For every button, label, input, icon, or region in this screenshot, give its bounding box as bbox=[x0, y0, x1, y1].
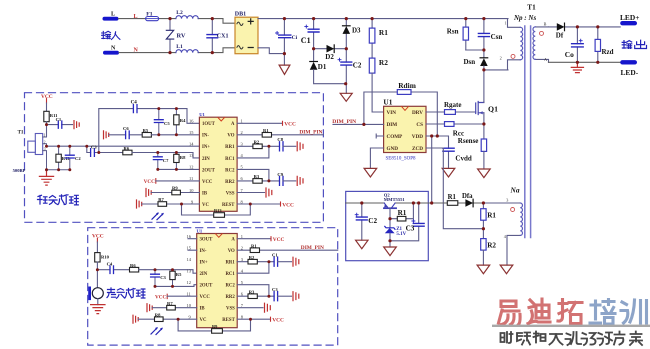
svg-text:RC1: RC1 bbox=[225, 157, 235, 162]
svg-text:VDD: VDD bbox=[412, 134, 423, 140]
resistor R1 (VO) / net DIM_PIN bbox=[237, 128, 323, 137]
wire aux rail bbox=[346, 202, 484, 204]
pin A wire to VCC (sound) bbox=[237, 237, 284, 243]
winding Na bbox=[483, 185, 522, 265]
svg-text:COMP: COMP bbox=[387, 134, 404, 140]
svg-text:Na: Na bbox=[510, 185, 520, 194]
svg-text:GND: GND bbox=[387, 146, 399, 152]
svg-text:Df: Df bbox=[556, 31, 564, 39]
svg-text:SE8510_SOP8: SE8510_SOP8 bbox=[386, 156, 417, 161]
svg-text:2: 2 bbox=[500, 56, 502, 61]
junction dots snubber bbox=[464, 17, 485, 72]
capacitor C1 (IR) bbox=[47, 117, 73, 128]
svg-text:5.1V: 5.1V bbox=[396, 232, 406, 237]
svg-text:RC2: RC2 bbox=[225, 284, 235, 289]
pin RC1 wire (sound) bbox=[237, 262, 269, 274]
wire LED- rail bbox=[549, 61, 621, 63]
ground (Na) bbox=[500, 265, 513, 274]
svg-text:C5: C5 bbox=[164, 121, 170, 126]
svg-text:DRV: DRV bbox=[412, 110, 423, 116]
svg-text:F1: F1 bbox=[146, 11, 152, 17]
wire sensor ground row bbox=[47, 169, 70, 171]
svg-text:1OUT: 1OUT bbox=[202, 122, 216, 127]
svg-text:VO: VO bbox=[228, 249, 235, 254]
resistor Rsense bbox=[458, 137, 487, 169]
resistor R8 (sound) bbox=[138, 312, 197, 321]
capacitor C8 bbox=[277, 137, 295, 151]
svg-text:ZCD: ZCD bbox=[412, 146, 423, 152]
svg-text:3OUT: 3OUT bbox=[200, 238, 214, 243]
transformer primary winding bbox=[500, 19, 523, 70]
junction dots DC rail bbox=[283, 17, 374, 85]
svg-text:R4: R4 bbox=[180, 118, 186, 123]
svg-text:RR1: RR1 bbox=[225, 145, 235, 150]
svg-text:C1: C1 bbox=[56, 117, 62, 122]
pin VSS ground (sound) bbox=[237, 303, 270, 312]
svg-text:2IN: 2IN bbox=[200, 272, 208, 277]
ground sideways (C1 IR) bbox=[74, 121, 79, 129]
sound arrows bbox=[151, 327, 163, 335]
svg-text:RV: RV bbox=[177, 33, 186, 40]
svg-text:Dfa: Dfa bbox=[462, 193, 473, 200]
svg-text:VCC: VCC bbox=[155, 295, 166, 301]
diode D2 bbox=[314, 45, 347, 61]
zener Z1 5.1V bbox=[385, 226, 407, 247]
resistor R5 (IR) bbox=[142, 128, 199, 137]
diode Dsn bbox=[464, 58, 488, 70]
wire VDD to aux supply bbox=[431, 136, 433, 203]
ground sideways (IB row) bbox=[146, 189, 151, 197]
microphone bbox=[88, 287, 103, 305]
ground sideways (VC row) bbox=[137, 200, 142, 208]
resistor R7 (sound) bbox=[152, 301, 197, 310]
svg-text:2IN: 2IN bbox=[202, 157, 210, 162]
op-amp controller U1 SE8510 bbox=[383, 98, 426, 162]
svg-text:A: A bbox=[231, 238, 235, 243]
resistor R2 (HV divider) bbox=[369, 58, 388, 112]
svg-text:Rgate: Rgate bbox=[444, 101, 462, 109]
resistor Rgate bbox=[426, 101, 476, 115]
svg-text:R1: R1 bbox=[398, 209, 407, 217]
label 输入 bbox=[102, 31, 120, 39]
resistor R1 (aux base) bbox=[390, 203, 413, 221]
wire 2OUT row (sound) bbox=[155, 285, 197, 287]
svg-text:C6: C6 bbox=[123, 126, 129, 131]
wire N input bbox=[119, 48, 235, 53]
capacitor CX1 bbox=[207, 19, 228, 53]
ground sideways (IN- row) bbox=[104, 131, 109, 139]
ground (R2 divider) bbox=[477, 265, 490, 274]
svg-text:RR2: RR2 bbox=[225, 295, 235, 300]
svg-text:C9: C9 bbox=[277, 172, 283, 177]
svg-text:R7: R7 bbox=[167, 301, 173, 306]
svg-text:C7: C7 bbox=[163, 158, 169, 163]
svg-text:U1: U1 bbox=[197, 229, 203, 234]
svg-text:VCC: VCC bbox=[202, 180, 213, 185]
capacitor C6 bbox=[109, 126, 143, 138]
svg-text:L2: L2 bbox=[176, 10, 183, 16]
ground (C2/D1) bbox=[340, 93, 352, 101]
earth ground (Co) bbox=[571, 62, 583, 72]
svg-text:Q1: Q1 bbox=[488, 104, 498, 113]
svg-text:U1: U1 bbox=[383, 98, 392, 107]
stubs pins 16,15 (sound) bbox=[188, 239, 197, 251]
ground sideways (C9) bbox=[297, 176, 303, 185]
svg-text:R6: R6 bbox=[124, 146, 130, 151]
watermark underline bbox=[492, 325, 650, 327]
svg-text:D1: D1 bbox=[318, 63, 327, 71]
svg-text:L: L bbox=[111, 11, 115, 17]
resistor Rcc bbox=[426, 122, 484, 138]
resistor R9 (IB) bbox=[151, 186, 199, 195]
resistor R3 (RR2) bbox=[237, 174, 279, 183]
svg-text:R6: R6 bbox=[130, 263, 136, 268]
svg-text:R2: R2 bbox=[379, 58, 388, 67]
svg-text:MMT5551: MMT5551 bbox=[384, 197, 406, 202]
watermark logo 易迪拓培训 bbox=[499, 301, 521, 325]
svg-text:D3: D3 bbox=[352, 26, 361, 34]
capacitor C4 (IR feedback) bbox=[99, 101, 200, 153]
capacitor C3 (aux) bbox=[390, 203, 424, 241]
IR detection block border bbox=[25, 93, 324, 223]
wire primary bottom / Q1 drain bbox=[484, 70, 508, 102]
junction dots U1 bbox=[362, 122, 485, 137]
svg-text:R13: R13 bbox=[214, 208, 222, 213]
svg-text:IB: IB bbox=[200, 307, 206, 312]
ground sideways (C8) bbox=[297, 142, 303, 151]
svg-text:IN+: IN+ bbox=[200, 261, 208, 266]
transformer secondary winding bbox=[533, 21, 549, 62]
resistor R13 (feedback loop) bbox=[182, 204, 251, 217]
svg-text:R2: R2 bbox=[254, 140, 260, 145]
svg-text:RR2: RR2 bbox=[225, 180, 235, 185]
resistor R1 (aux out) bbox=[447, 194, 458, 206]
power VCC (sound top) bbox=[92, 234, 104, 253]
terminal LED- bbox=[620, 60, 638, 77]
pin REST wire to VCC (sound) bbox=[237, 317, 284, 323]
svg-text:C2: C2 bbox=[368, 217, 377, 225]
diode D1 bbox=[310, 62, 346, 84]
resistor R2 (RR1 sound) bbox=[237, 255, 274, 264]
resistor R4 bbox=[174, 109, 186, 135]
svg-text:N: N bbox=[111, 46, 116, 52]
ground (Cvdd) bbox=[442, 168, 455, 177]
svg-text:VSS: VSS bbox=[226, 191, 235, 196]
svg-text:DIM: DIM bbox=[387, 122, 398, 128]
resistor R2 (RR1) bbox=[237, 140, 279, 149]
svg-text:R8: R8 bbox=[180, 155, 186, 160]
resistor Rsn bbox=[447, 19, 469, 50]
svg-text:RC1: RC1 bbox=[225, 272, 235, 277]
capacitor C3 (sound) bbox=[151, 270, 167, 287]
resistor R8 (IR) bbox=[174, 153, 186, 170]
svg-text:R1: R1 bbox=[487, 211, 496, 219]
power VCC (IR top) bbox=[41, 94, 53, 112]
svg-text:R1: R1 bbox=[263, 128, 269, 133]
svg-text:DIM_PIN: DIM_PIN bbox=[301, 245, 324, 251]
IR arrows bbox=[152, 212, 164, 220]
pin COMP stub bbox=[376, 134, 383, 138]
inductor L2 bbox=[176, 16, 198, 19]
label 声控检测 bbox=[107, 288, 145, 298]
svg-text:CX1: CX1 bbox=[217, 33, 229, 39]
svg-text:Rzd: Rzd bbox=[602, 48, 614, 56]
svg-text:C3: C3 bbox=[160, 275, 166, 280]
svg-text:B: B bbox=[544, 21, 547, 26]
svg-text:12: 12 bbox=[187, 280, 191, 285]
terminal N bbox=[103, 46, 139, 55]
ground sideways (C1 sound) bbox=[293, 257, 299, 266]
varistor RV bbox=[166, 19, 186, 53]
capacitor C7 bbox=[153, 153, 169, 170]
resistor R6 (IR) bbox=[123, 146, 200, 158]
svg-text:3: 3 bbox=[506, 198, 508, 203]
ground (U1 GND) bbox=[364, 148, 384, 177]
junction dots sound bbox=[96, 260, 271, 321]
transistor Q1 bbox=[476, 102, 484, 115]
power VCC (pin11 sound) bbox=[155, 294, 197, 300]
svg-text:Rdim: Rdim bbox=[398, 81, 417, 90]
svg-text:Cvdd: Cvdd bbox=[455, 155, 471, 163]
svg-text:IB: IB bbox=[202, 191, 208, 196]
junction dots IR bbox=[45, 107, 270, 205]
wire IR signal row bbox=[47, 145, 200, 147]
net DIM_PIN (U1) bbox=[332, 119, 383, 125]
svg-text:CS: CS bbox=[416, 122, 423, 128]
transformer T1 core bbox=[525, 26, 531, 238]
svg-text:C1: C1 bbox=[272, 253, 278, 258]
svg-text:IN+: IN+ bbox=[202, 145, 210, 150]
svg-text:C4: C4 bbox=[131, 101, 138, 106]
resistor R12 bbox=[56, 146, 71, 170]
svg-text:4: 4 bbox=[504, 234, 507, 239]
svg-text:C3: C3 bbox=[91, 144, 97, 149]
svg-text:Dsn: Dsn bbox=[464, 58, 476, 66]
svg-text:VCC: VCC bbox=[144, 179, 155, 185]
wire DC top rail bbox=[258, 18, 508, 20]
svg-text:VC: VC bbox=[200, 318, 207, 323]
svg-text:IN-: IN- bbox=[202, 134, 209, 139]
diode Dfa bbox=[462, 193, 473, 207]
ground (bulk cap) bbox=[279, 65, 290, 74]
capacitor Ci bulk bbox=[276, 19, 298, 66]
pin RC2 wire (sound) bbox=[237, 285, 269, 297]
fuse F1 bbox=[146, 11, 159, 20]
svg-text:C3: C3 bbox=[272, 287, 278, 292]
svg-text:RR1: RR1 bbox=[225, 261, 235, 266]
svg-text:A: A bbox=[231, 122, 235, 127]
capacitor C2 (IR) bbox=[65, 146, 81, 170]
IC BISS0001 (IR) bbox=[189, 112, 244, 211]
svg-text:R3: R3 bbox=[254, 174, 260, 179]
svg-text:L1: L1 bbox=[176, 44, 183, 50]
watermark slogan 射频和天线设计专家 bbox=[501, 332, 643, 346]
resistor R3 (RR2 sound) bbox=[237, 289, 274, 298]
svg-text:T1: T1 bbox=[18, 130, 24, 135]
pin REST wire to VCC bbox=[237, 202, 294, 208]
label 输出 bbox=[622, 40, 646, 48]
terminal L bbox=[103, 11, 138, 20]
resistor R10 bbox=[95, 253, 110, 288]
resistor Rdim bbox=[364, 81, 437, 136]
aux supply box bbox=[346, 191, 429, 260]
svg-text:RC2: RC2 bbox=[225, 168, 235, 173]
ground sideways (IB sound) bbox=[147, 304, 152, 312]
svg-text:2OUT: 2OUT bbox=[202, 168, 216, 173]
capacitor C2 bbox=[338, 49, 362, 94]
svg-text:R1: R1 bbox=[251, 243, 257, 248]
svg-text:VO: VO bbox=[227, 134, 234, 139]
capacitor C2 (aux) bbox=[355, 203, 377, 240]
svg-text:D2: D2 bbox=[325, 53, 334, 61]
svg-text:1: 1 bbox=[505, 21, 507, 26]
svg-text:Ci: Ci bbox=[292, 35, 298, 41]
svg-text:T1: T1 bbox=[527, 3, 536, 11]
resistor Rzd bbox=[595, 27, 614, 62]
svg-text:14: 14 bbox=[187, 257, 192, 262]
svg-text:R9: R9 bbox=[212, 324, 218, 329]
resistor R6 (sound) bbox=[130, 263, 197, 273]
svg-text:LED+: LED+ bbox=[620, 13, 639, 22]
svg-text:DB1: DB1 bbox=[235, 12, 246, 18]
svg-text:Np : Ns: Np : Ns bbox=[513, 14, 536, 22]
svg-text:VC: VC bbox=[202, 203, 209, 208]
svg-text:C2: C2 bbox=[353, 62, 362, 70]
svg-text:Co: Co bbox=[565, 50, 574, 59]
earth ground (mic) bbox=[91, 305, 105, 314]
capacitor C4 (sound) bbox=[97, 261, 129, 273]
svg-text:R1: R1 bbox=[379, 28, 388, 37]
pin RC1 wire bbox=[237, 146, 269, 158]
ground (Z1) bbox=[384, 247, 397, 256]
svg-text:R5: R5 bbox=[143, 128, 149, 133]
capacitor C3 (IR input) bbox=[87, 144, 123, 156]
IC BISS0001 (sound) bbox=[187, 229, 244, 328]
svg-text:500BP: 500BP bbox=[13, 168, 26, 173]
bridge rectifier DB1 bbox=[235, 12, 258, 54]
svg-text:VSS: VSS bbox=[226, 307, 235, 312]
resistor R1 (VO sound) / net DIM_PIN bbox=[237, 243, 338, 252]
svg-text:VCC: VCC bbox=[282, 202, 294, 208]
capacitor C9 bbox=[277, 172, 295, 186]
resistor R2 (ZCD divider) bbox=[481, 239, 497, 266]
svg-text:R2: R2 bbox=[487, 241, 496, 249]
svg-text:A: A bbox=[544, 57, 547, 62]
diode Df bbox=[549, 23, 621, 39]
power VCC (pin11 IR) bbox=[144, 179, 200, 185]
svg-text:Rsense: Rsense bbox=[458, 137, 479, 145]
capacitor C1 (sound) bbox=[272, 253, 292, 267]
svg-text:C1: C1 bbox=[301, 36, 311, 45]
junction dots output bbox=[576, 25, 600, 64]
resistor R9 (sound loop) bbox=[178, 319, 250, 333]
resistor R7 (VC) bbox=[142, 197, 200, 206]
pin RC2 wire bbox=[237, 169, 269, 181]
wire L input bbox=[119, 19, 236, 24]
svg-text:C3: C3 bbox=[406, 225, 415, 233]
wire DB1 negative out bbox=[258, 48, 284, 54]
capacitor C5 bbox=[154, 109, 170, 135]
svg-text:Rsn: Rsn bbox=[447, 27, 459, 35]
svg-text:C4: C4 bbox=[107, 261, 113, 266]
resistor R11 bbox=[44, 111, 58, 136]
svg-text:LED-: LED- bbox=[621, 68, 639, 77]
resistor R1 (HV divider) bbox=[369, 19, 388, 59]
ground (C2 aux) bbox=[356, 240, 368, 249]
sound detection block border bbox=[88, 228, 338, 345]
capacitor C1 bbox=[301, 19, 319, 62]
resistor R5 (sound) bbox=[170, 270, 182, 287]
pin VSS ground bbox=[237, 188, 272, 197]
svg-text:REST: REST bbox=[222, 318, 235, 323]
IR sensor T1 500BP bbox=[13, 130, 47, 173]
svg-text:R9: R9 bbox=[172, 186, 178, 191]
capacitor C3 (RR2 sound) bbox=[272, 287, 292, 301]
svg-text:U1: U1 bbox=[199, 112, 205, 117]
svg-text:R1: R1 bbox=[448, 194, 457, 201]
svg-text:R10: R10 bbox=[101, 254, 110, 259]
svg-text:R3: R3 bbox=[249, 289, 255, 294]
wire 2OUT row bbox=[158, 168, 200, 170]
svg-text:Z1: Z1 bbox=[396, 227, 402, 232]
pin A wire to VCC bbox=[237, 121, 296, 127]
transistor Q2 MMT5551 bbox=[384, 193, 406, 228]
svg-text:R5: R5 bbox=[176, 272, 182, 277]
junction dots input bbox=[168, 17, 214, 54]
svg-text:R7: R7 bbox=[158, 197, 164, 202]
capacitor Csn bbox=[466, 19, 503, 58]
label 红外检测 bbox=[38, 195, 79, 205]
svg-text:REST: REST bbox=[222, 203, 235, 208]
diode D3 bbox=[343, 19, 362, 49]
svg-text:VCC: VCC bbox=[273, 237, 285, 243]
svg-text:IN-: IN- bbox=[200, 249, 207, 254]
svg-text:DIM_PIN: DIM_PIN bbox=[299, 129, 322, 135]
inductor L1 bbox=[176, 50, 198, 53]
svg-text:C2: C2 bbox=[75, 156, 81, 161]
svg-text:R2: R2 bbox=[249, 255, 255, 260]
ground sideways (C3 sound) bbox=[293, 292, 299, 301]
terminal LED+ bbox=[620, 13, 639, 26]
ground (Rsense) bbox=[478, 169, 491, 178]
wire ZCD sense bbox=[426, 148, 483, 229]
svg-text:VCC: VCC bbox=[272, 318, 284, 324]
svg-text:12: 12 bbox=[189, 165, 193, 170]
svg-text:VIN: VIN bbox=[387, 110, 397, 116]
svg-text:VCC: VCC bbox=[284, 122, 296, 128]
resistor R1 (ZCD divider) bbox=[481, 203, 497, 239]
svg-text:R8: R8 bbox=[155, 312, 161, 317]
ground sideways (VC sound) bbox=[133, 315, 138, 323]
svg-text:Csn: Csn bbox=[491, 33, 503, 41]
svg-text:C8: C8 bbox=[277, 137, 283, 142]
capacitor Co bbox=[565, 27, 583, 62]
svg-text:2OUT: 2OUT bbox=[200, 284, 214, 289]
junction dots aux bbox=[360, 201, 485, 242]
svg-text:VCC: VCC bbox=[200, 295, 211, 300]
earth ground (sensor) bbox=[39, 170, 53, 185]
capacitor Cvdd bbox=[426, 136, 472, 168]
